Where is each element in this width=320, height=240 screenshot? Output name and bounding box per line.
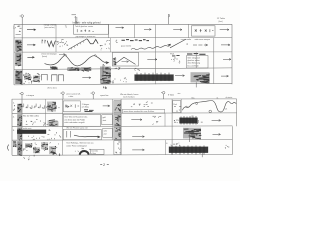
node arrow r2a xyxy=(27,44,35,46)
wire staff line B3 xyxy=(12,125,232,128)
node cue symbol b x22 xyxy=(19,92,23,99)
node arrow r1e xyxy=(220,29,229,31)
node scribbles below roof box xyxy=(115,68,121,70)
svg-text:8 Takte: 8 Takte xyxy=(168,93,174,96)
node marks r2 x105-117 xyxy=(105,40,118,45)
node marks r2 x98-110 xyxy=(100,45,109,50)
svg-text:a tempo: a tempo xyxy=(26,94,35,97)
wire stem b r3 xyxy=(189,133,191,142)
node crosses inside box xyxy=(195,29,214,32)
node box r1 with glyphs xyxy=(74,24,109,34)
node box r1 right with crosses xyxy=(192,26,216,36)
node arrow r1c xyxy=(144,28,151,30)
svg-text:sotto voce sempre: sotto voce sempre xyxy=(195,38,210,41)
node thick black band b r3 xyxy=(17,130,46,134)
wire barline x172 xyxy=(171,99,173,155)
node tall dark cluster r4 x100 xyxy=(100,67,111,84)
node cue symbol b x93 xyxy=(91,92,95,99)
node arrow r1d xyxy=(173,29,182,31)
svg-text:quasi fine: quasi fine xyxy=(100,95,108,97)
node marks below line x100 xyxy=(103,86,107,89)
node arrow inside roof box xyxy=(122,61,129,63)
wire staff line T3 xyxy=(14,51,232,53)
wire barline x181 xyxy=(180,99,182,113)
wire staff line T5 xyxy=(14,83,232,85)
svg-text:sim.: sim. xyxy=(178,93,182,95)
node box b r1a xyxy=(63,101,80,112)
node boxed text b r4 xyxy=(90,149,104,154)
node dark box b r1b xyxy=(114,101,121,113)
node thin text box b r1 xyxy=(122,109,164,113)
svg-text:am Steg: am Steg xyxy=(82,106,89,109)
node arrow r4b xyxy=(175,75,185,77)
svg-text:8va: 8va xyxy=(192,97,195,99)
svg-text:Ped.: Ped. xyxy=(173,104,177,106)
wire barline x108 xyxy=(107,24,109,38)
node marks r3 x170 lower xyxy=(172,58,181,64)
node bumpy rising line r2 xyxy=(131,44,171,50)
wire barline x165 r2 xyxy=(164,113,166,126)
node arrow r3b xyxy=(147,58,157,60)
node ascending beamed line r2 xyxy=(68,39,87,50)
svg-text:gleichm. weiter: gleichm. weiter xyxy=(188,59,201,62)
node arrow r3a xyxy=(27,56,34,58)
node big text box b r2 xyxy=(63,114,100,126)
wire barline x110 r2 xyxy=(109,38,111,52)
node scattered marks b r1 mid xyxy=(131,102,153,107)
svg-text:Flatt.: Flatt. xyxy=(170,53,175,56)
wire barline x232 right edge xyxy=(231,24,233,84)
node hatched box r3b xyxy=(81,68,91,71)
svg-text:pp: pp xyxy=(192,116,194,118)
node box b r4c xyxy=(114,141,121,155)
svg-text:poco a poco rall.: poco a poco rall. xyxy=(67,93,81,96)
svg-text:stert: stert xyxy=(103,119,107,122)
wire staff line T1 xyxy=(14,23,232,25)
svg-text:Wie die Stille selbst: Wie die Stille selbst xyxy=(23,115,39,118)
node specks before band xyxy=(174,119,178,123)
wire right edge x232 xyxy=(231,126,233,154)
svg-text:(leise): (leise) xyxy=(42,56,48,58)
node arrow b r1 xyxy=(103,105,110,107)
svg-text:7): 7) xyxy=(65,26,67,28)
wire barline x62 xyxy=(62,99,64,155)
node cue symbol b x163 xyxy=(161,91,165,99)
node cue symbol b x63 xyxy=(60,92,64,99)
node staple shapes r4 xyxy=(42,74,64,81)
node marks b r2 x152 xyxy=(153,116,162,125)
node dark cluster r4 right xyxy=(191,72,210,82)
wire stem below cluster xyxy=(195,82,197,87)
node black band b r2 xyxy=(180,118,198,124)
node repeated note glyph row b r1 xyxy=(22,104,59,109)
svg-text:cresc. molto: cresc. molto xyxy=(181,38,191,41)
node small text box b r2 xyxy=(102,115,113,125)
wire staff line T2 xyxy=(14,37,232,39)
wire staff line B2 xyxy=(12,112,237,114)
wire barline x112 xyxy=(112,99,114,140)
node loop at wave peak xyxy=(65,55,97,57)
node dark cluster b r3 right xyxy=(183,128,201,139)
node dashes below band b3 xyxy=(29,136,45,140)
svg-text:pp sempre e senza acc.: pp sempre e senza acc. xyxy=(76,35,97,38)
wire stem b r4 xyxy=(201,153,203,158)
node dark arc blob b r4 xyxy=(80,151,89,155)
node dense patch b r1 xyxy=(47,102,56,112)
node label blob b4b xyxy=(17,141,22,155)
node cue symbol above x22 xyxy=(20,15,24,25)
svg-text:zieht und wieder vergeht: zieht und wieder vergeht xyxy=(64,121,85,124)
node box r3 with roof xyxy=(112,52,138,66)
node arrow b r2 right xyxy=(212,119,221,121)
wire staff line B4 xyxy=(12,139,232,142)
wire barline x165 r4 xyxy=(165,140,167,155)
node arrow r2 right xyxy=(221,44,230,46)
node box b r3b xyxy=(103,128,113,137)
wire barline x45 xyxy=(45,99,47,127)
node dark bits b r2 xyxy=(48,120,58,126)
node dark blob b3 label xyxy=(17,127,22,139)
node box b r3a xyxy=(63,129,101,139)
svg-text:bis zum Ende: bis zum Ende xyxy=(188,65,199,67)
wire spine x196 xyxy=(195,52,197,68)
node dark box b r2c xyxy=(114,114,121,126)
node tick mark xyxy=(72,14,77,16)
svg-text:weiter Ferne verklingend: weiter Ferne verklingend xyxy=(66,144,86,147)
node marks b r3 x47 xyxy=(47,130,61,141)
node ascending diagonal r2 right xyxy=(170,39,186,48)
wire barline x155 xyxy=(154,24,156,84)
node stacked text cluster r3 right xyxy=(187,53,206,56)
node arrow r4a xyxy=(82,77,91,79)
wire barline x134 xyxy=(133,24,135,38)
node stems with flags r2 xyxy=(42,40,46,44)
wire right edge x236 xyxy=(236,99,238,126)
node glyph row inside box xyxy=(77,29,94,32)
node dark blob r3 label xyxy=(15,53,21,66)
wire barline x12 left edge xyxy=(11,99,13,155)
node dark dash band r2 xyxy=(122,40,150,41)
svg-text:molto sost.: molto sost. xyxy=(23,127,32,130)
wire barline x188 xyxy=(188,24,190,37)
node roof shape inside box xyxy=(115,57,136,64)
node bracket b r4 left xyxy=(8,145,9,151)
node arrow r3 right xyxy=(223,58,231,60)
node bold flat zigzag r2 xyxy=(87,39,98,44)
svg-text:immer leiser werdend bis zum S: immer leiser werdend bis zum Schluss xyxy=(124,111,155,113)
node arrow r1a xyxy=(27,29,36,31)
wire barline x22b xyxy=(21,99,23,155)
svg-text:Text: Halleluja - Stimmen wie: Text: Halleluja - Stimmen wie aus xyxy=(66,142,93,145)
svg-text:(wie vorher): (wie vorher) xyxy=(44,27,55,29)
node arrow r4 right xyxy=(221,75,229,77)
node dense scribble field b r4 xyxy=(23,142,61,156)
node hatched box r3a xyxy=(68,68,80,71)
node dots row r2 xyxy=(57,40,69,48)
wire barline x14 xyxy=(13,24,15,85)
svg-text:noch (horbar): noch (horbar) xyxy=(123,95,135,98)
svg-text:sub.: sub. xyxy=(185,106,189,108)
wire staff line T4 xyxy=(14,68,232,70)
svg-text:zart: zart xyxy=(104,132,107,135)
svg-text:(Echo del.): (Echo del.) xyxy=(48,87,58,89)
node dense left cluster r4 xyxy=(15,71,22,85)
node arrow r1b xyxy=(116,27,124,29)
node long black ladder b r4 xyxy=(169,147,208,153)
node arrow b r3 xyxy=(132,136,144,138)
svg-text:Wie ein Flustern ganz nah: Wie ein Flustern ganz nah xyxy=(66,127,87,130)
svg-text:gefl.: gefl. xyxy=(103,117,107,119)
node arrow b r3 right xyxy=(213,133,221,135)
node box b r1c xyxy=(173,101,181,113)
wire barline x213 xyxy=(213,38,215,84)
node dark box b r3c xyxy=(114,127,121,139)
svg-text:al niente: al niente xyxy=(226,96,233,99)
node cue symbol x168 xyxy=(169,14,170,24)
wire staff line B1 xyxy=(12,98,237,100)
node dark patch under wave xyxy=(50,67,58,70)
svg-text:von ferne uber die Felder: von ferne uber die Felder xyxy=(64,118,85,121)
node tiny text below bottom line xyxy=(23,157,29,161)
wire barline x121 xyxy=(120,99,122,155)
node meander wave b r1 xyxy=(182,101,236,112)
svg-text:12 Takte: 12 Takte xyxy=(217,17,226,20)
node dark marks left edge of roof box xyxy=(113,58,116,65)
node label marks r1 xyxy=(15,26,21,32)
node dark blob r2 label xyxy=(15,40,21,52)
svg-text:quasi niente: quasi niente xyxy=(121,44,131,47)
node page number xyxy=(100,163,109,165)
node marks b r2 xyxy=(26,120,48,126)
wire barline x56 xyxy=(55,24,57,52)
node bold W zigzag r2 xyxy=(47,41,55,47)
node label blob b4a xyxy=(13,141,16,147)
svg-text:al fine: al fine xyxy=(91,153,96,155)
node tall sign above box xyxy=(75,16,78,24)
wire staff line B5 xyxy=(12,154,232,157)
node arrow b r2 xyxy=(131,119,142,121)
node dark ladder band r4 center xyxy=(135,75,174,81)
node scattered glyphs r4 mid xyxy=(112,78,127,84)
node circle on line b r1 xyxy=(209,110,212,113)
svg-text:ohne Betonung: ohne Betonung xyxy=(188,62,201,65)
wire barline x22 xyxy=(21,24,23,85)
node dark blob b2 label xyxy=(17,114,22,126)
svg-text:Takt 4 gleichm. weiter: Takt 4 gleichm. weiter xyxy=(75,25,94,28)
svg-text:e dim.: e dim. xyxy=(69,96,75,98)
node dash arrow r2 xyxy=(193,44,208,46)
node arrow b r4 xyxy=(132,149,144,151)
node small arrow r3 xyxy=(59,53,65,55)
node dark blob b1 label xyxy=(17,104,22,113)
svg-text:Sehr ruhig und: Sehr ruhig und xyxy=(188,56,200,59)
svg-text:(frei): (frei) xyxy=(219,21,223,23)
svg-text:2: 2 xyxy=(103,163,105,167)
svg-text:Text: Wie ein Rauschen das: Text: Wie ein Rauschen das xyxy=(64,116,87,119)
svg-text:sehr: sehr xyxy=(104,131,108,133)
node small marks b r4 right xyxy=(225,145,229,149)
node big M wave r3 xyxy=(45,56,109,66)
